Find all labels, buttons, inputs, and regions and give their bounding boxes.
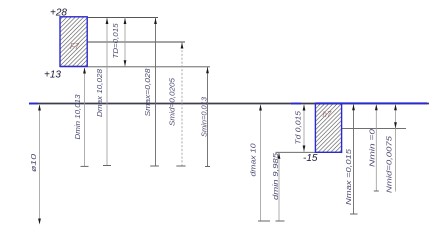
svg-text:Td 0,015: Td 0,015 (296, 111, 303, 145)
svg-text:TD=0,015: TD=0,015 (113, 23, 120, 58)
svg-text:Smid=0,0205: Smid=0,0205 (170, 78, 177, 126)
svg-text:Nmin =0: Nmin =0 (370, 129, 377, 167)
svg-text:Dmax 10,028: Dmax 10,028 (97, 69, 104, 117)
svg-text:F7: F7 (70, 42, 80, 51)
svg-text:Nmax =0,015: Nmax =0,015 (346, 149, 353, 205)
svg-text:Nmid=0,0075: Nmid=0,0075 (387, 136, 394, 193)
svg-text:h7: h7 (323, 110, 332, 119)
svg-text:+13: +13 (44, 70, 61, 81)
svg-text:Smax=0,028: Smax=0,028 (145, 68, 152, 116)
svg-text:Dmin 10,013: Dmin 10,013 (75, 94, 82, 139)
svg-text:dmin 9,985: dmin 9,985 (273, 153, 280, 200)
svg-text:ø10: ø10 (31, 154, 38, 172)
svg-text:Smin=0,013: Smin=0,013 (202, 97, 209, 137)
svg-text:+28: +28 (50, 8, 67, 19)
svg-text:dmax 10: dmax 10 (251, 143, 258, 176)
svg-text:-15: -15 (303, 153, 318, 164)
